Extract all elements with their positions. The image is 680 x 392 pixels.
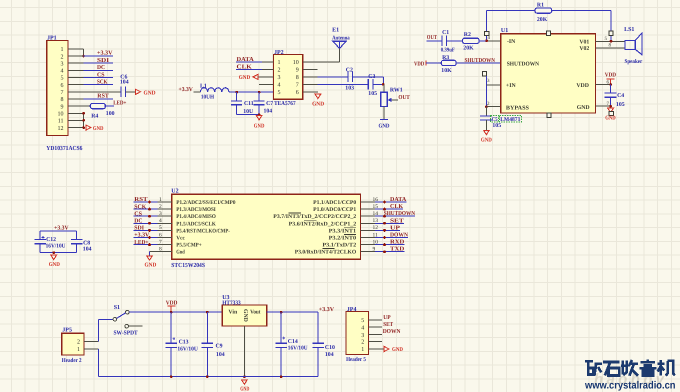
power +3.3V (MCU decoupling) xyxy=(54,226,69,232)
pad above +IN xyxy=(482,72,486,76)
svg-text:P1.1/ADC1/CCP0: P1.1/ADC1/CCP0 xyxy=(313,200,356,206)
wire/net SHUTDOWN to U1 pin1 xyxy=(456,58,501,64)
JP2 part value TEA5767 xyxy=(274,101,296,107)
wire pad to +IN and BYPASS xyxy=(485,76,501,108)
svg-text:105: 105 xyxy=(492,123,501,129)
watermark haobby xyxy=(594,371,665,388)
svg-text:1: 1 xyxy=(361,347,364,353)
wire JP1 pin9 to R4 xyxy=(68,105,90,107)
capacitor C3 105 xyxy=(368,74,377,97)
svg-text:CS: CS xyxy=(134,211,142,217)
pad below U1 xyxy=(547,113,551,117)
ground GND (JP2 pin3) xyxy=(239,74,274,81)
svg-text:+IN: +IN xyxy=(506,83,517,89)
ground GND (RW1, bar style) xyxy=(379,106,390,129)
capacitor C11 10U xyxy=(231,92,254,115)
svg-text:10: 10 xyxy=(58,111,64,117)
capacitor C12 16V/10U xyxy=(34,236,66,249)
svg-text:5: 5 xyxy=(361,318,364,324)
logo text (kuang shi shou yin ji) xyxy=(585,359,675,375)
resistor R3 10K xyxy=(441,55,456,74)
svg-text:BYPASS: BYPASS xyxy=(506,105,529,111)
ground GND (JP4 pin1) xyxy=(384,346,403,353)
svg-text:C4: C4 xyxy=(617,93,624,99)
svg-text:13: 13 xyxy=(373,218,379,224)
ground GND (C5) xyxy=(481,130,492,143)
wire/net CS (U2 pin3) xyxy=(134,211,172,218)
svg-text:GND: GND xyxy=(577,105,590,111)
wire JP5 pin2 to switch xyxy=(84,319,113,341)
svg-text:P3.2/INT0: P3.2/INT0 xyxy=(329,236,357,242)
svg-text:CLK: CLK xyxy=(237,64,253,70)
svg-text:LS1: LS1 xyxy=(624,27,634,33)
resistor R1 20K xyxy=(535,2,552,22)
svg-text:R3: R3 xyxy=(442,55,449,61)
svg-text:3: 3 xyxy=(159,211,162,217)
svg-text:105: 105 xyxy=(368,91,377,97)
wire/net TXD (U2 pin9) xyxy=(361,247,406,254)
svg-text:R1: R1 xyxy=(537,2,544,8)
svg-text:SCK: SCK xyxy=(97,79,108,85)
resistor R4 100 xyxy=(90,104,114,120)
svg-text:GND: GND xyxy=(312,101,324,107)
svg-text:SCK: SCK xyxy=(134,204,146,210)
svg-text:P1.2/ADC2/SS/ECI/CMP0: P1.2/ADC2/SS/ECI/CMP0 xyxy=(176,200,235,206)
wire/net CLK (U2 pin15) xyxy=(361,204,404,211)
svg-text:V02: V02 xyxy=(579,46,589,52)
svg-text:GND: GND xyxy=(392,347,403,353)
svg-text:C5: C5 xyxy=(492,117,498,123)
svg-text:5: 5 xyxy=(61,76,64,82)
wire/net LED+ (U2 pin7) xyxy=(134,239,172,246)
svg-text:VDD: VDD xyxy=(414,62,425,68)
svg-text:GND: GND xyxy=(144,90,156,96)
svg-text:Vout: Vout xyxy=(250,309,260,315)
svg-text:C1: C1 xyxy=(442,30,449,36)
svg-text:VDD: VDD xyxy=(576,83,589,89)
wire C3 to node / junction xyxy=(373,83,385,86)
wire R1 left to -IN xyxy=(487,11,535,41)
pad above U1 xyxy=(546,31,550,35)
capacitor C13 16V/10U xyxy=(165,312,198,377)
op-amp U1 LM4871 xyxy=(501,28,596,113)
svg-text:GND: GND xyxy=(93,126,104,132)
svg-text:100: 100 xyxy=(106,111,115,117)
svg-text:+3.3V: +3.3V xyxy=(134,233,150,239)
wire +3.3V to L1 xyxy=(194,91,201,93)
svg-text:10U: 10U xyxy=(243,109,254,115)
svg-text:OUT: OUT xyxy=(398,95,409,101)
svg-text:Speaker: Speaker xyxy=(625,58,643,65)
svg-text:P5.4/RST/MCLKO/CMP-: P5.4/RST/MCLKO/CMP- xyxy=(176,228,230,234)
ground GND (JP1 pin12) xyxy=(86,125,104,132)
svg-text:C11: C11 xyxy=(244,101,254,107)
svg-text:R4: R4 xyxy=(91,113,98,119)
svg-text:Vin: Vin xyxy=(228,308,238,315)
capacitor C8 104 xyxy=(71,240,92,253)
wire switch to U3 Vin xyxy=(129,311,222,314)
ground GND (JP1 pin7) xyxy=(136,89,156,96)
svg-text:DC: DC xyxy=(97,65,105,71)
svg-text:20K: 20K xyxy=(537,17,548,23)
svg-text:10K: 10K xyxy=(441,68,452,74)
capacitor C6 104 xyxy=(120,74,129,97)
microcontroller U2 STC15W204S xyxy=(171,189,360,260)
svg-text:16V/10U: 16V/10U xyxy=(288,346,309,352)
svg-text:11: 11 xyxy=(373,232,379,238)
wire/net +3.3V (U2 pin6) xyxy=(134,232,172,239)
svg-text:4: 4 xyxy=(278,83,281,89)
wire/net SHUTDOWN (U2 pin14) xyxy=(361,211,416,218)
power VDD (R3) xyxy=(414,60,426,67)
wire pin1-pin2 tie xyxy=(68,49,85,58)
svg-text:CS: CS xyxy=(97,72,105,78)
power VDD (U1 pin6) xyxy=(605,73,617,85)
svg-text:LM4871: LM4871 xyxy=(500,117,520,123)
wire U3 GND to rail xyxy=(243,326,246,378)
svg-text:1: 1 xyxy=(77,347,80,353)
svg-text:5: 5 xyxy=(278,90,281,96)
svg-text:RST: RST xyxy=(97,94,109,100)
svg-text:3: 3 xyxy=(61,61,64,67)
svg-text:9: 9 xyxy=(373,247,376,253)
svg-text:7: 7 xyxy=(61,90,64,96)
svg-text:16V/10U: 16V/10U xyxy=(46,243,67,249)
svg-text:P3.6/INT2/RxD_2/CCP1_2: P3.6/INT2/RxD_2/CCP1_2 xyxy=(289,221,357,227)
ground GND (U2 pin8) xyxy=(145,256,157,269)
wire/net +3.3V (JP1 pin2) xyxy=(68,51,113,57)
svg-text:RST: RST xyxy=(134,197,147,203)
wire C11/C7 ground rail xyxy=(237,113,261,116)
svg-text:12: 12 xyxy=(373,225,379,231)
svg-text:9: 9 xyxy=(296,68,299,74)
capacitor C5 105 xyxy=(480,107,501,131)
svg-text:DATA: DATA xyxy=(390,197,407,203)
wire/net DATA (JP2 pin1) xyxy=(236,57,274,63)
svg-text:P3.7/INT3/TxD_2/CCP2/CCP2_2: P3.7/INT3/TxD_2/CCP2/CCP2_2 xyxy=(273,214,356,220)
svg-text:104: 104 xyxy=(264,109,273,115)
wire L1 to JP2 pin5 xyxy=(229,91,274,94)
ground GND (U1 pin7) xyxy=(605,108,615,121)
wire JP2 pin9 stub xyxy=(303,68,318,70)
connector JP4 Header 5 xyxy=(346,307,368,355)
svg-text:7: 7 xyxy=(159,239,162,245)
U1 part value LM4871 xyxy=(499,116,521,123)
svg-text:103: 103 xyxy=(345,86,354,92)
svg-text:P1.5/ADC5/SCLK: P1.5/ADC5/SCLK xyxy=(176,221,216,227)
speaker LS1 xyxy=(624,27,643,65)
svg-text:7: 7 xyxy=(296,83,299,89)
wire JP1 pin7 to C6 xyxy=(68,91,121,93)
svg-text:SHUTDOWN: SHUTDOWN xyxy=(384,211,416,217)
svg-text:LED+: LED+ xyxy=(113,101,127,107)
svg-text:UP: UP xyxy=(383,315,391,321)
svg-text:104: 104 xyxy=(325,352,334,358)
JP1 part value YD10371ACS6 xyxy=(46,145,82,152)
svg-text:15: 15 xyxy=(373,204,379,210)
wire U1 V01 to speaker xyxy=(596,36,626,43)
svg-text:P3.1/TxD/T2: P3.1/TxD/T2 xyxy=(322,243,356,249)
wire JP1 pins 10-12 tie xyxy=(68,112,85,129)
svg-text:2: 2 xyxy=(278,68,281,74)
logo url www.crystalradio.cn xyxy=(584,380,675,392)
svg-text:8: 8 xyxy=(61,97,64,103)
svg-text:2: 2 xyxy=(77,340,80,346)
wire JP2 pin7 to C3 xyxy=(303,83,369,85)
svg-text:TXD: TXD xyxy=(390,247,405,253)
svg-text:C3: C3 xyxy=(368,74,375,80)
svg-text:104: 104 xyxy=(216,352,225,358)
svg-text:S1: S1 xyxy=(114,305,120,311)
regulator U3 HT7333 xyxy=(222,295,267,326)
wire/net SET (U2 pin13) xyxy=(361,218,404,225)
capacitor C1 0.39uF xyxy=(441,30,455,54)
svg-text:U1: U1 xyxy=(501,28,508,34)
svg-text:LED+: LED+ xyxy=(134,240,149,246)
wire/net SDI (JP1 pin3) xyxy=(68,58,113,64)
svg-text:CLK: CLK xyxy=(390,204,403,210)
svg-text:DC: DC xyxy=(134,219,142,225)
svg-text:P5.5/CMP+: P5.5/CMP+ xyxy=(176,243,201,249)
wire JP4 pin2 stub xyxy=(368,341,382,343)
wire VDD to R3 xyxy=(426,62,442,64)
svg-text:P1.4/ADC4/MISO: P1.4/ADC4/MISO xyxy=(176,214,216,220)
svg-text:4: 4 xyxy=(159,218,162,224)
svg-text:GND: GND xyxy=(49,262,60,268)
svg-text:www.crystalradio.cn: www.crystalradio.cn xyxy=(584,380,675,392)
svg-text:4: 4 xyxy=(361,325,364,331)
svg-text:C7: C7 xyxy=(266,101,273,107)
wire JP5 pin1 to ground rail xyxy=(84,349,99,377)
svg-text:8: 8 xyxy=(159,247,162,253)
capacitor C9 104 xyxy=(202,312,225,377)
switch S1 SW-SPDT xyxy=(113,305,143,336)
svg-text:V01: V01 xyxy=(579,39,589,45)
wire U1 GND pin7 xyxy=(596,101,612,108)
wire U1 V02 to speaker xyxy=(596,43,626,49)
wire C2 to node xyxy=(353,77,384,85)
wire/net CS (JP1 pin5) xyxy=(68,72,113,78)
wire/net LED+ xyxy=(105,101,127,107)
ground GND (C11/C7) xyxy=(254,116,265,130)
wire C12/C8 ground rail xyxy=(40,244,77,254)
svg-text:GND: GND xyxy=(240,387,249,392)
pad on -IN feedback xyxy=(484,31,488,35)
svg-text:11: 11 xyxy=(58,119,64,125)
svg-text:P3.3/INT1: P3.3/INT1 xyxy=(329,228,357,234)
svg-text:+3.3V: +3.3V xyxy=(97,51,113,57)
svg-text:RW1: RW1 xyxy=(390,87,403,93)
svg-text:P1.0/ADC0/CCP1: P1.0/ADC0/CCP1 xyxy=(313,207,356,213)
wire U1 VDD pin6 xyxy=(596,79,612,86)
net OUT (wiper) xyxy=(398,95,409,101)
antenna E1 xyxy=(332,27,350,48)
svg-text:-IN: -IN xyxy=(507,39,516,45)
wire antenna to JP2 pin10 xyxy=(303,49,340,62)
svg-text:Header 2: Header 2 xyxy=(62,357,82,364)
wire R2 to U1 -IN / junction xyxy=(479,35,501,42)
svg-text:STC15W204S: STC15W204S xyxy=(171,262,205,269)
svg-text:1: 1 xyxy=(159,197,162,203)
wire U3 Vout to +3.3V xyxy=(267,311,319,314)
wire/net CLK (JP2 pin2) xyxy=(236,64,274,70)
svg-text:RXD: RXD xyxy=(390,240,405,246)
capacitor C14 16V/10U xyxy=(275,312,308,377)
wire/net DC (JP1 pin4) xyxy=(68,65,113,71)
svg-text:6: 6 xyxy=(61,83,64,89)
svg-text:+3.3V: +3.3V xyxy=(179,87,194,93)
svg-text:P1.3/ADC3/MOSI: P1.3/ADC3/MOSI xyxy=(176,207,216,213)
svg-text:Antenna: Antenna xyxy=(332,35,350,41)
svg-text:C14: C14 xyxy=(288,339,298,345)
svg-text:Vcc: Vcc xyxy=(176,236,185,242)
wire/net DC (U2 pin4) xyxy=(134,218,172,225)
wire/net SCK (JP1 pin6) xyxy=(68,79,113,85)
wire +3.3V rail xyxy=(40,231,77,239)
JP5 part value Header 2 xyxy=(62,357,82,364)
capacitor C10 104 xyxy=(312,312,335,377)
svg-text:+3.3V: +3.3V xyxy=(319,307,335,313)
svg-text:YD10371ACS6: YD10371ACS6 xyxy=(46,145,82,152)
pad on V01 feedback xyxy=(609,31,613,35)
wire/net DATA (U2 pin16) xyxy=(361,197,407,204)
svg-text:GND: GND xyxy=(145,263,157,269)
wire bottom ground rail xyxy=(99,375,319,378)
svg-text:1: 1 xyxy=(61,47,64,53)
svg-text:SDI: SDI xyxy=(97,58,110,64)
wire/net RST (JP1 pin8) xyxy=(68,94,113,100)
wire/net DOWN (U2 pin11) xyxy=(361,232,409,239)
ground GND (U3) xyxy=(240,380,249,392)
resistor R2 20K xyxy=(463,32,480,52)
wire/net SCK (U2 pin2) xyxy=(134,204,172,211)
svg-text:GND: GND xyxy=(481,138,492,144)
svg-text:SET: SET xyxy=(390,218,404,224)
svg-text:12: 12 xyxy=(58,126,64,132)
power +3.3V (regulator output) xyxy=(319,307,335,313)
svg-text:SHUTDOWN: SHUTDOWN xyxy=(507,61,540,67)
svg-text:SET: SET xyxy=(383,322,393,328)
svg-text:GND: GND xyxy=(605,116,615,122)
wire/net DOWN (JP4 pin3) xyxy=(368,329,401,335)
wire JP2 pin4 stub xyxy=(259,83,274,85)
wire U2 pin8 to GND xyxy=(150,247,172,256)
svg-text:C9: C9 xyxy=(216,344,223,350)
svg-text:DATA: DATA xyxy=(237,57,255,63)
U2 part value STC15W204S xyxy=(171,262,205,269)
svg-text:10: 10 xyxy=(293,60,299,66)
svg-text:6: 6 xyxy=(159,232,162,238)
wire JP4 pin1 to GND xyxy=(368,348,383,350)
net OUT (input) xyxy=(427,35,437,41)
svg-text:L1: L1 xyxy=(200,83,207,89)
svg-text:R2: R2 xyxy=(464,32,471,38)
svg-text:0.39uF: 0.39uF xyxy=(441,47,455,53)
svg-text:104: 104 xyxy=(120,79,129,85)
svg-text:DOWN: DOWN xyxy=(390,233,409,239)
svg-text:SHUTDOWN: SHUTDOWN xyxy=(465,58,496,64)
wire C6 to GND xyxy=(126,91,136,93)
power VDD (main) xyxy=(166,301,178,312)
svg-text:9: 9 xyxy=(61,104,64,110)
svg-text:104: 104 xyxy=(83,247,92,253)
svg-text:16V/10U: 16V/10U xyxy=(177,346,198,352)
svg-text:2: 2 xyxy=(361,340,364,346)
svg-text:OUT: OUT xyxy=(427,35,437,41)
power +3.3V (TEA5767 supply) xyxy=(179,87,194,93)
wire/net SET (JP4 pin4) xyxy=(368,322,393,328)
inductor L1 10UH xyxy=(200,83,229,100)
wire R1 right to V01 xyxy=(552,11,611,42)
svg-text:E1: E1 xyxy=(332,27,339,33)
svg-text:C10: C10 xyxy=(325,345,335,351)
svg-text:4: 4 xyxy=(61,69,64,75)
ground GND (C12/C8) xyxy=(49,255,60,268)
svg-text:SDI: SDI xyxy=(134,226,144,232)
connector JP1 xyxy=(47,36,68,136)
svg-text:10: 10 xyxy=(373,239,379,245)
svg-text:C13: C13 xyxy=(179,340,189,346)
svg-text:C2: C2 xyxy=(346,67,353,73)
svg-text:5: 5 xyxy=(159,225,162,231)
capacitor C4 105 xyxy=(605,85,625,108)
svg-text:Gnd: Gnd xyxy=(176,250,185,256)
ground GND (JP2 pin6) xyxy=(303,92,324,108)
wire OUT to C1 xyxy=(427,40,442,42)
svg-text:6: 6 xyxy=(296,90,299,96)
connector JP2 TEA5767 xyxy=(274,50,303,99)
svg-text:GND: GND xyxy=(254,124,265,130)
connector JP5 Header 2 xyxy=(62,328,84,355)
svg-text:16: 16 xyxy=(373,197,379,203)
capacitor C7 104 xyxy=(254,92,274,115)
svg-text:1: 1 xyxy=(278,60,281,66)
JP4 part value Header 5 xyxy=(346,356,366,363)
svg-text:14: 14 xyxy=(373,211,379,217)
svg-text:3: 3 xyxy=(361,333,364,339)
svg-text:105: 105 xyxy=(616,102,625,108)
svg-text:DOWN: DOWN xyxy=(383,329,401,335)
svg-text:2: 2 xyxy=(61,54,64,60)
wire/net SDI (U2 pin5) xyxy=(134,225,172,232)
svg-text:C12: C12 xyxy=(46,237,56,243)
wire/net UP (U2 pin12) xyxy=(361,225,401,232)
svg-text:GND: GND xyxy=(242,309,248,322)
svg-text:20K: 20K xyxy=(463,46,474,52)
svg-text:3: 3 xyxy=(278,75,281,81)
wire/net RST (U2 pin1) xyxy=(134,197,172,204)
wire JP2 pin8 to C2 xyxy=(303,76,348,78)
svg-text:TEA5767: TEA5767 xyxy=(274,101,296,107)
svg-text:8: 8 xyxy=(296,75,299,81)
svg-text:UP: UP xyxy=(390,225,400,231)
svg-text:GND: GND xyxy=(379,123,390,129)
svg-text:Header 5: Header 5 xyxy=(346,356,366,363)
svg-text:P3.0/RxD/INT4/T2CLKO: P3.0/RxD/INT4/T2CLKO xyxy=(295,250,357,256)
svg-text:GND: GND xyxy=(239,75,250,81)
capacitor C2 103 xyxy=(345,67,354,91)
svg-text:10UH: 10UH xyxy=(201,94,215,100)
potentiometer RW1 xyxy=(381,84,403,106)
wire/net RXD (U2 pin10) xyxy=(361,239,406,246)
svg-text:2: 2 xyxy=(159,204,162,210)
svg-text:SW-SPDT: SW-SPDT xyxy=(114,330,138,336)
svg-text:VDD: VDD xyxy=(605,73,617,79)
wire/net UP (JP4 pin5) xyxy=(368,315,391,321)
wire C1 to R2 xyxy=(447,40,463,42)
